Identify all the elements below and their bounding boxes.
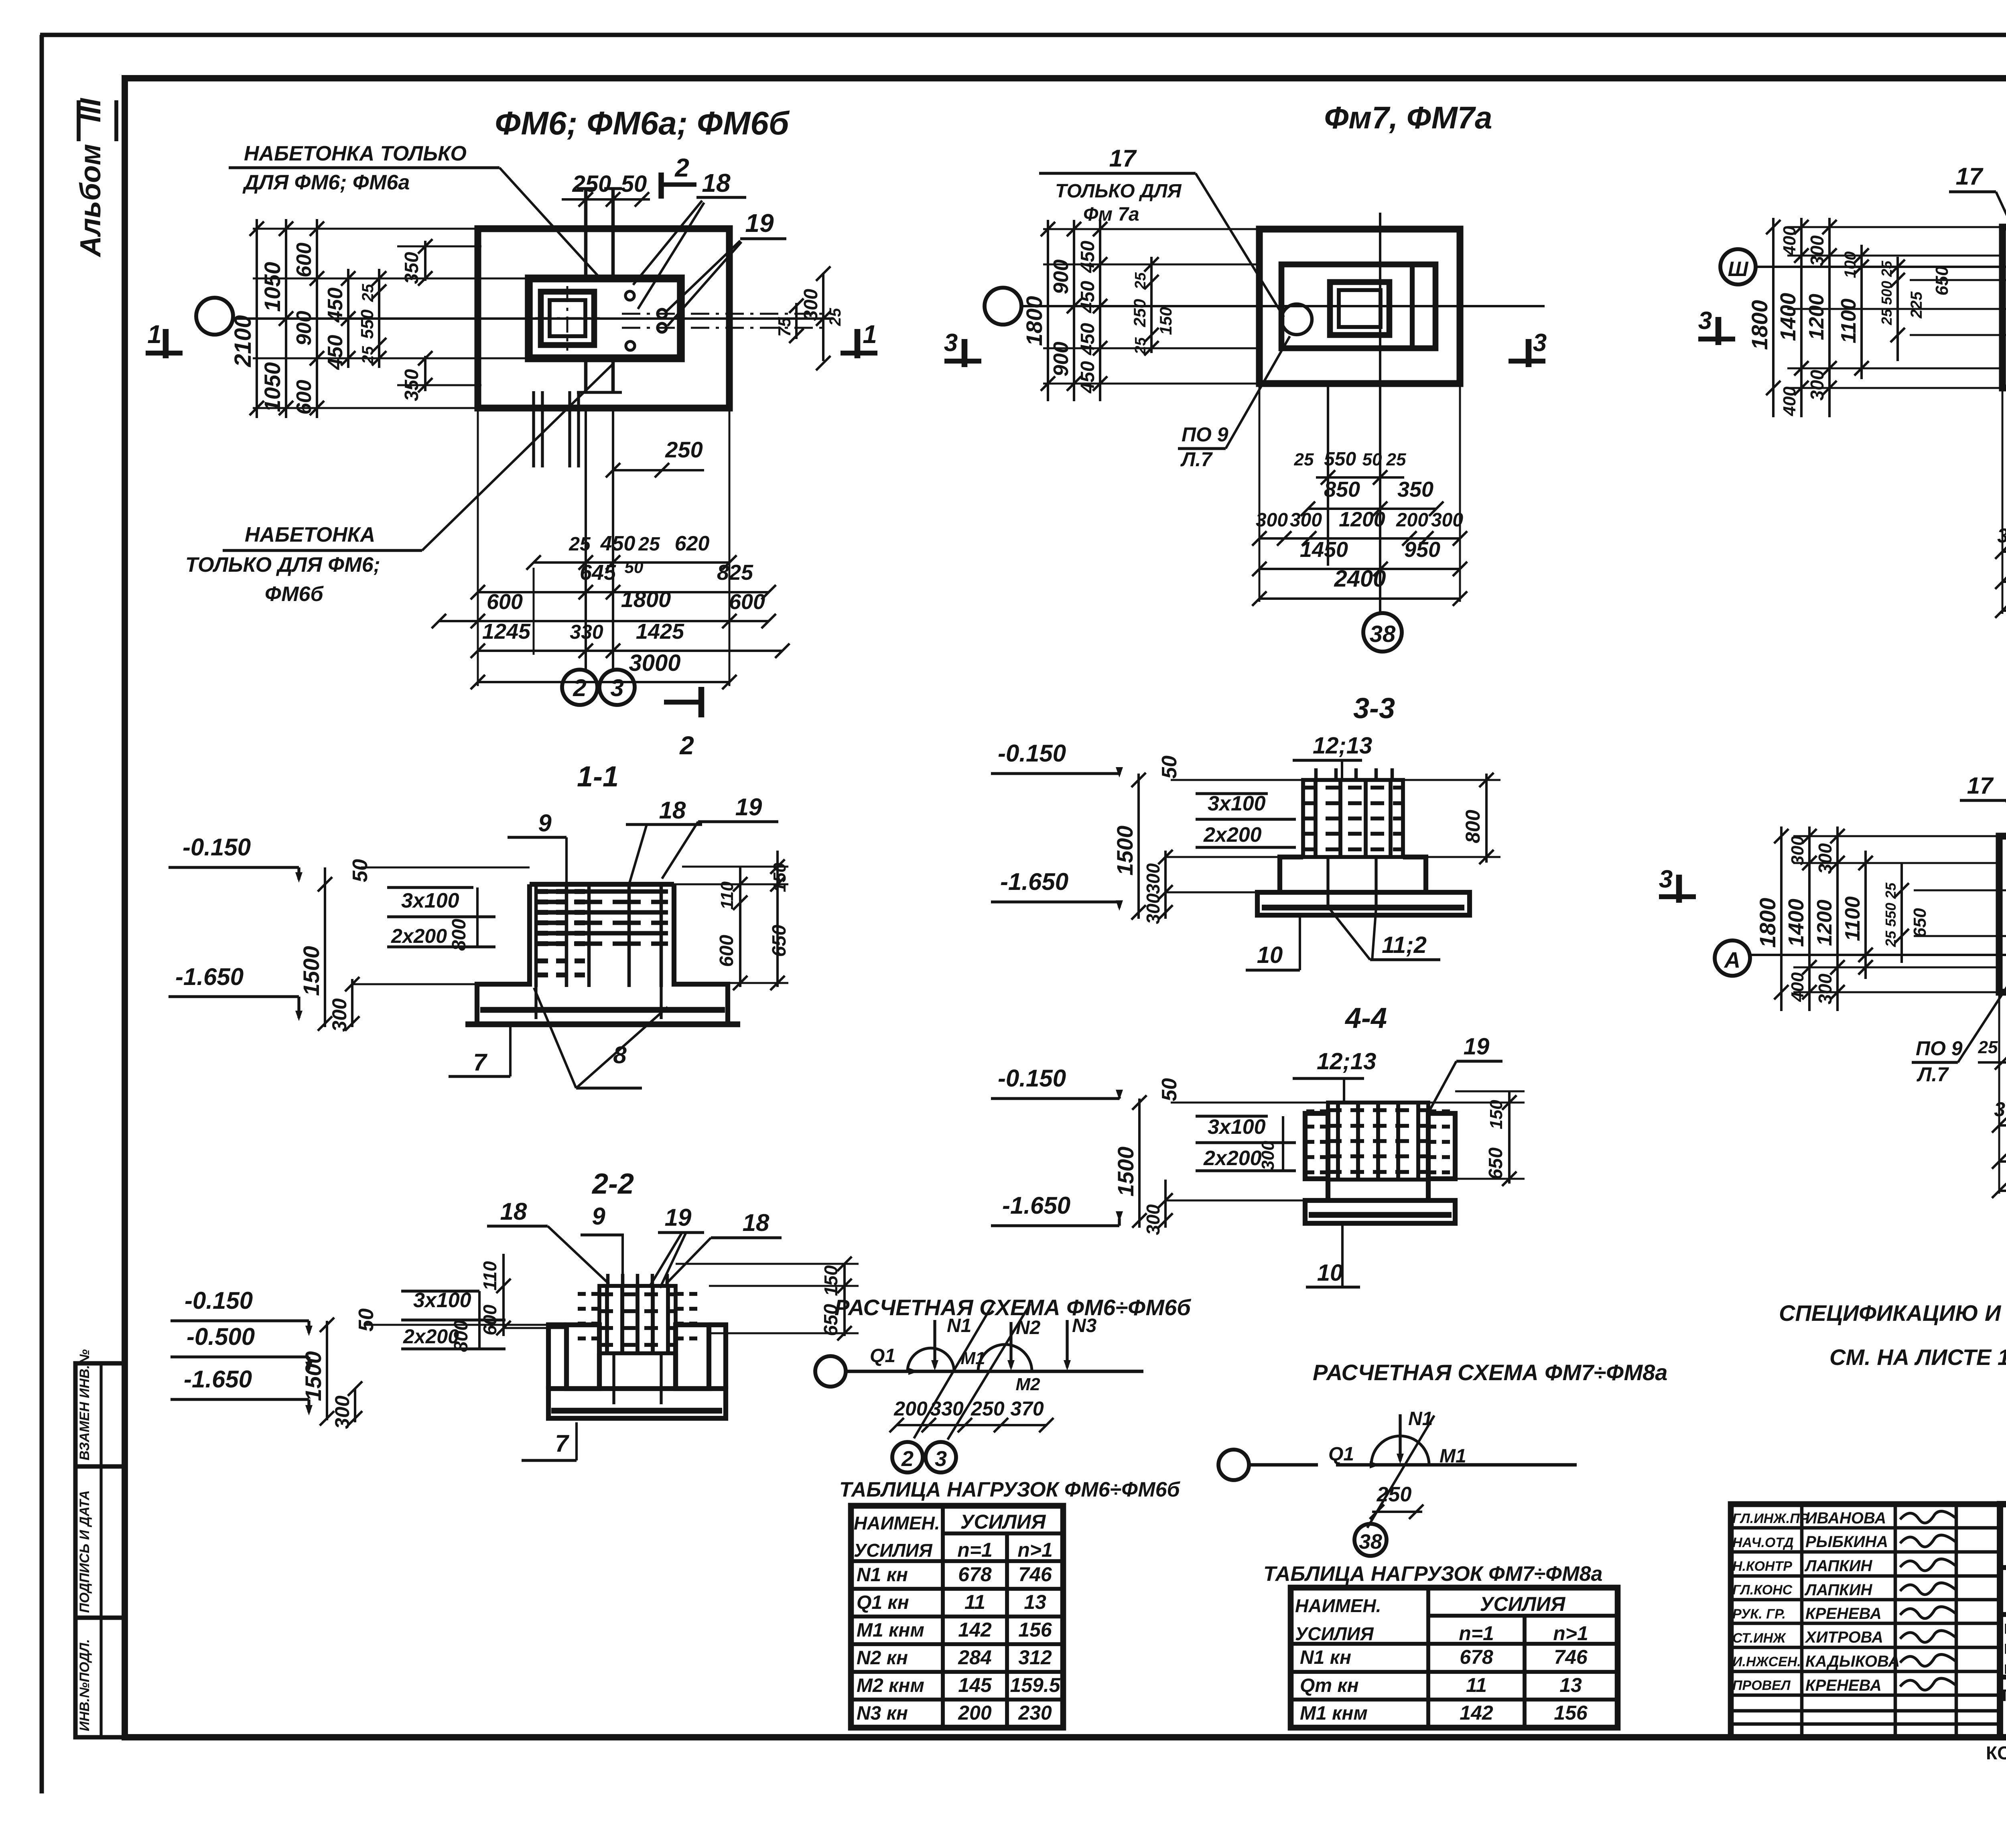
personnel table column line 2 xyxy=(1894,1504,1897,1737)
svg-text:ЛАПКИН: ЛАПКИН xyxy=(1804,1557,1873,1575)
svg-text:3х100: 3х100 xyxy=(1208,1115,1266,1139)
svg-text:ГЛ.ИНЖ.ПР: ГЛ.ИНЖ.ПР xyxy=(1732,1511,1809,1526)
svg-text:645: 645 xyxy=(580,560,616,585)
svg-text:1500: 1500 xyxy=(1112,826,1137,876)
plan FM8 axis circle Sh xyxy=(1720,249,1756,284)
svg-text:РУК. ГР.: РУК. ГР. xyxy=(1732,1606,1786,1622)
plan FM7 left dim 900/900 xyxy=(1073,220,1075,401)
plan FM8a axis line xyxy=(1750,954,2006,956)
svg-text:142: 142 xyxy=(958,1619,992,1641)
personnel row 5 line xyxy=(1731,1622,2000,1625)
svg-text:3: 3 xyxy=(1698,307,1712,335)
svg-text:18: 18 xyxy=(743,1209,770,1236)
plan FM6 anchor bolt lines above pedestal xyxy=(584,187,588,281)
svg-text:-0.150: -0.150 xyxy=(183,834,251,861)
svg-text:4-4: 4-4 xyxy=(1344,1002,1387,1034)
svg-text:300: 300 xyxy=(1143,863,1163,894)
section 2-2 footing outline xyxy=(548,1325,566,1389)
svg-text:17: 17 xyxy=(1967,773,1994,799)
section 3-3 dim 800 xyxy=(1485,774,1488,863)
svg-text:НАИМЕН.: НАИМЕН. xyxy=(854,1513,940,1533)
plan FM8a outer outline xyxy=(1999,836,2006,992)
table FM7 outline xyxy=(1291,1588,1618,1728)
svg-text:650: 650 xyxy=(1485,1147,1507,1180)
svg-text:9: 9 xyxy=(592,1203,605,1230)
svg-text:38: 38 xyxy=(1359,1530,1382,1554)
plan FM8 left dim 1800 xyxy=(1772,218,1775,417)
personnel table column line 1 xyxy=(1800,1504,1804,1737)
svg-text:1100: 1100 xyxy=(1841,896,1864,941)
plan FM6 dim 350 top xyxy=(424,241,426,281)
svg-text:КРЕНЕВА: КРЕНЕВА xyxy=(1805,1605,1882,1623)
svg-text:Ш: Ш xyxy=(1728,258,1749,281)
section 1-1 dim 300 xyxy=(351,979,353,1027)
section 3-3 cage mesh xyxy=(1303,786,1403,790)
svg-text:Qт кн: Qт кн xyxy=(1300,1675,1359,1696)
svg-text:-0.500: -0.500 xyxy=(187,1323,255,1350)
table FM6 row lines xyxy=(851,1559,1063,1563)
svg-text:330: 330 xyxy=(930,1397,964,1420)
svg-text:ПО 9: ПО 9 xyxy=(1916,1037,1963,1060)
nabetonka top leader xyxy=(499,168,603,281)
section 3-3 step block xyxy=(1280,857,1303,892)
plan FM7 leader po9 xyxy=(1226,336,1290,449)
scheme FM6 axis circle xyxy=(815,1356,846,1387)
svg-text:300: 300 xyxy=(1258,1141,1278,1170)
section 2-2 bars top hooks xyxy=(606,1274,610,1286)
personnel row 8 signature squiggle xyxy=(1900,1678,1955,1690)
section 3-3 footing outline xyxy=(1257,892,1470,915)
section 1-1 right dims 600 110 xyxy=(674,883,788,885)
plan FM7 section 3 flag left xyxy=(944,359,981,364)
svg-text:1245: 1245 xyxy=(482,619,531,644)
svg-text:Q1: Q1 xyxy=(1328,1444,1354,1465)
scheme FM6 force N2 xyxy=(1009,1322,1012,1367)
plan FM6 anchor bolt lines below pedestal xyxy=(584,356,588,391)
scheme FM7 axis circle 38 xyxy=(1354,1524,1387,1556)
svg-text:ТОЛЬКО ДЛЯ: ТОЛЬКО ДЛЯ xyxy=(1055,181,1182,202)
personnel row 6 signature squiggle xyxy=(1900,1631,1955,1642)
section 1-1 vertical bars xyxy=(534,884,538,987)
svg-text:n>1: n>1 xyxy=(1017,1539,1053,1561)
svg-text:250: 250 xyxy=(1130,299,1149,327)
svg-text:900: 900 xyxy=(1050,260,1073,294)
svg-text:312: 312 xyxy=(1018,1646,1052,1669)
svg-text:450: 450 xyxy=(1077,323,1098,355)
scheme FM7 leader slant xyxy=(1367,1415,1434,1528)
section 2-2 dim 1500 xyxy=(326,1321,328,1420)
plan FM6 bolt axis verticals down to circles xyxy=(585,408,587,670)
svg-text:678: 678 xyxy=(1460,1646,1493,1668)
svg-text:2-2: 2-2 xyxy=(591,1168,634,1200)
svg-text:350: 350 xyxy=(1397,477,1433,502)
svg-text:450: 450 xyxy=(324,288,347,323)
plan FM6 left dim line 2100 xyxy=(256,219,258,418)
left stamp box 1 (vzamen inv) xyxy=(75,1363,125,1466)
svg-text:3: 3 xyxy=(1659,865,1673,893)
svg-text:Фм 7а: Фм 7а xyxy=(1083,204,1139,225)
personnel row 8 line xyxy=(1731,1694,2000,1697)
plan FM7 anchor plate outer xyxy=(1330,282,1389,335)
plan FM6 pedestal outline xyxy=(529,278,681,358)
svg-text:Фм7, ФМ7а: Фм7, ФМ7а xyxy=(1324,100,1492,135)
plan FM7 middle outline xyxy=(1281,264,1435,348)
svg-text:2х200: 2х200 xyxy=(391,925,447,947)
section 2-2 rebar cage outline xyxy=(599,1286,676,1353)
plan FM7 left dim 1800 xyxy=(1047,220,1049,401)
svg-text:17: 17 xyxy=(1109,145,1137,172)
plan FM7 axis circle xyxy=(985,288,1021,325)
svg-text:300: 300 xyxy=(328,998,351,1032)
scheme FM6 leader slants to axis circles xyxy=(914,1302,994,1438)
svg-text:ТОЛЬКО ДЛЯ ФМ6;: ТОЛЬКО ДЛЯ ФМ6; xyxy=(185,553,380,577)
plan FM6 section 1 flag right xyxy=(841,351,877,355)
section 4-4 footing mesh line xyxy=(1309,1212,1452,1218)
table FM7 header merged line xyxy=(1428,1614,1618,1618)
plan FM8 left dim 1400/400 xyxy=(1800,218,1803,417)
svg-text:3: 3 xyxy=(1533,329,1547,357)
svg-text:1500: 1500 xyxy=(1113,1147,1138,1197)
svg-text:ИВАНОВА: ИВАНОВА xyxy=(1805,1509,1886,1527)
svg-text:ТАБЛИЦА НАГРУЗОК ФМ7÷ФМ8а: ТАБЛИЦА НАГРУЗОК ФМ7÷ФМ8а xyxy=(1263,1562,1602,1586)
svg-text:25: 25 xyxy=(1386,450,1406,469)
section 4-4 cage side dashes xyxy=(1306,1109,1328,1113)
svg-text:Л.7: Л.7 xyxy=(1180,448,1213,471)
plan FM6 leader lines from 18 to anchors xyxy=(633,201,702,285)
svg-text:150: 150 xyxy=(1486,1100,1506,1129)
personnel row 3 signature squiggle xyxy=(1900,1559,1955,1571)
svg-text:400: 400 xyxy=(1780,386,1799,416)
svg-text:600: 600 xyxy=(729,590,765,614)
svg-text:СМ. НА ЛИСТЕ 13: СМ. НА ЛИСТЕ 13 xyxy=(1829,1344,2006,1370)
svg-text:19: 19 xyxy=(745,209,774,238)
personnel row 7 line xyxy=(1731,1670,2000,1673)
svg-text:КОПИРОВАЛ: ГРАФСКАЯ: КОПИРОВАЛ: ГРАФСКАЯ xyxy=(1986,1742,2006,1763)
title block hline above project name xyxy=(1999,1612,2006,1617)
svg-text:50: 50 xyxy=(1158,755,1181,779)
plan FM6 left extension lines xyxy=(253,228,478,230)
svg-text:2х200: 2х200 xyxy=(1203,823,1262,847)
svg-text:450: 450 xyxy=(324,335,347,370)
personnel row 2 line xyxy=(1731,1550,2000,1554)
svg-text:Q1 кн: Q1 кн xyxy=(857,1592,909,1613)
svg-text:150: 150 xyxy=(1156,307,1175,335)
svg-text:Л.7: Л.7 xyxy=(1917,1063,1949,1086)
svg-text:НОСТЬЮ 6.0ТЫС.ТОНН ИЗДЕЛИЙ В Г: НОСТЬЮ 6.0ТЫС.ТОНН ИЗДЕЛИЙ В ГОД xyxy=(2004,1661,2006,1677)
svg-text:300: 300 xyxy=(1290,510,1322,531)
plan FM8 left dim 1100/100 xyxy=(1860,245,1863,379)
section 2-2 cage side dashes right xyxy=(676,1292,697,1296)
table FM6 header merged line xyxy=(943,1531,1063,1535)
svg-text:300: 300 xyxy=(1143,1204,1163,1235)
svg-text:РЫБКИНА: РЫБКИНА xyxy=(1805,1533,1888,1551)
svg-text:800: 800 xyxy=(451,1320,472,1352)
svg-text:3-3: 3-3 xyxy=(1353,692,1395,725)
plan FM8a leader po9 xyxy=(1958,916,2006,1062)
svg-text:1050: 1050 xyxy=(260,362,285,412)
svg-text:УСИЛИЯ: УСИЛИЯ xyxy=(1480,1593,1566,1615)
plan FM6 axis centerline xyxy=(233,317,834,320)
svg-text:2: 2 xyxy=(901,1447,914,1471)
plan FM8 outer outline xyxy=(2002,227,2006,388)
svg-text:225: 225 xyxy=(1908,291,1925,319)
table FM7 column line 2 xyxy=(1523,1616,1527,1728)
svg-text:ПРОВЕЛ: ПРОВЕЛ xyxy=(1732,1678,1791,1693)
svg-text:450: 450 xyxy=(1077,281,1098,313)
section 1-1 footing slab bottom xyxy=(465,1021,740,1028)
personnel extra row line 1 xyxy=(1731,1709,2000,1713)
svg-text:50: 50 xyxy=(349,859,372,882)
svg-text:1500: 1500 xyxy=(300,1351,326,1401)
section 2-2 stem outline xyxy=(597,1353,602,1389)
personnel row 6 line xyxy=(1731,1646,2000,1649)
svg-text:-0.150: -0.150 xyxy=(998,740,1066,767)
svg-text:3: 3 xyxy=(610,674,623,701)
plan FM6 left dim line 450/450 xyxy=(347,269,349,368)
svg-text:250: 250 xyxy=(1377,1483,1412,1506)
section 3-3 dim 1500 xyxy=(1137,774,1140,919)
personnel table column line 3 xyxy=(1955,1504,1958,1737)
section 2-2 dim 300 xyxy=(354,1388,356,1422)
scheme FM7 axis circle xyxy=(1218,1450,1249,1480)
title block hline between name rows xyxy=(1999,1675,2006,1679)
far right section 3 flag for FM8a xyxy=(1659,894,1696,899)
svg-text:N3 кн: N3 кн xyxy=(857,1703,908,1724)
svg-text:13: 13 xyxy=(1024,1591,1046,1613)
svg-text:N1 кн: N1 кн xyxy=(1300,1647,1351,1668)
svg-text:n>1: n>1 xyxy=(1553,1622,1588,1645)
svg-text:-0.150: -0.150 xyxy=(998,1065,1066,1092)
svg-text:КАДЫКОВА: КАДЫКОВА xyxy=(1805,1653,1900,1670)
section 2-2 right dims 150 650 xyxy=(709,1285,859,1287)
svg-text:825: 825 xyxy=(717,560,753,585)
section 1-1 column rebar horizontal bars xyxy=(536,889,668,894)
section 1-1 dim 1500 xyxy=(324,867,326,1027)
plan FM6 section 1 flag left xyxy=(146,351,183,355)
scheme FM6 force N3 xyxy=(1066,1320,1068,1367)
svg-text:ФМ6б: ФМ6б xyxy=(265,583,324,606)
plan FM8 leader 17 xyxy=(1996,192,2006,317)
sheet outer border top line xyxy=(40,33,2006,37)
table FM6 outline xyxy=(851,1506,1063,1728)
svg-text:678: 678 xyxy=(958,1563,992,1586)
plan FM7 section 3 flag right xyxy=(1509,359,1545,364)
personnel row 1 line xyxy=(1731,1526,2000,1530)
plan FM6 axis circle 3 xyxy=(599,670,635,705)
plan FM8 centerline horizontal xyxy=(1902,308,2006,310)
section 2-2 right beam block xyxy=(676,1325,709,1389)
plan FM6 left dim small 25/550/25 xyxy=(378,269,380,368)
plan FM6 left dim line 600/900/600 xyxy=(316,219,318,418)
table FM7 column line 1 xyxy=(1426,1588,1430,1728)
svg-text:600: 600 xyxy=(479,1304,500,1335)
svg-text:110: 110 xyxy=(479,1261,500,1291)
svg-text:N1: N1 xyxy=(947,1315,971,1336)
svg-text:230: 230 xyxy=(1018,1702,1052,1724)
svg-text:142: 142 xyxy=(1460,1702,1493,1724)
section 4-4 dim 300 xyxy=(1164,1180,1167,1228)
svg-text:50: 50 xyxy=(1158,1078,1181,1101)
svg-text:1: 1 xyxy=(147,320,162,349)
plan FM8 left extension lines xyxy=(1787,226,2002,228)
svg-text:2400: 2400 xyxy=(1334,566,1386,592)
svg-text:М2: М2 xyxy=(1015,1375,1040,1394)
svg-text:2: 2 xyxy=(679,731,694,760)
svg-text:1800: 1800 xyxy=(1755,898,1780,948)
section 3-3 cage outline xyxy=(1303,780,1403,857)
svg-text:350: 350 xyxy=(401,252,422,284)
svg-text:3х100: 3х100 xyxy=(401,889,459,912)
svg-text:100: 100 xyxy=(1842,252,1859,278)
section 1-1 vertical bar bottom hooks xyxy=(534,987,537,1019)
plan FM8a extension verticals xyxy=(1998,992,2000,1194)
section 2-2 cage mesh xyxy=(599,1292,676,1296)
scheme FM6 axis circle 3 xyxy=(926,1442,956,1472)
section 4-4 left beam block xyxy=(1305,1113,1328,1179)
svg-text:А: А xyxy=(1724,947,1740,973)
svg-text:НАБЕТОНКА ТОЛЬКО: НАБЕТОНКА ТОЛЬКО xyxy=(244,142,467,165)
svg-text:7: 7 xyxy=(473,1049,487,1076)
svg-text:145: 145 xyxy=(958,1674,992,1696)
svg-text:3000: 3000 xyxy=(629,650,680,676)
svg-text:1450: 1450 xyxy=(1300,538,1348,562)
title block personnel table outline xyxy=(1731,1504,2000,1737)
plan FM8a left dim 300/1200/300 xyxy=(1836,827,1839,1011)
scheme FM7 moment arc xyxy=(1371,1436,1429,1465)
plan FM6 right small dims xyxy=(795,303,798,339)
svg-text:НАЧ.ОТД: НАЧ.ОТД xyxy=(1732,1535,1794,1550)
plan FM7 bolt verticals xyxy=(1327,384,1329,566)
svg-text:25: 25 xyxy=(359,284,377,302)
svg-text:25: 25 xyxy=(1132,337,1149,355)
svg-text:370: 370 xyxy=(1010,1397,1044,1420)
plan FM6 axis circle xyxy=(196,298,233,335)
svg-text:300: 300 xyxy=(800,289,822,321)
scheme FM6 moment arc 1 xyxy=(908,1348,954,1371)
svg-text:50: 50 xyxy=(625,558,644,577)
svg-text:25: 25 xyxy=(359,346,377,364)
svg-text:1800: 1800 xyxy=(1021,296,1047,346)
svg-text:УСИЛИЯ: УСИЛИЯ xyxy=(854,1540,933,1561)
nabetonka bottom leader xyxy=(422,363,614,550)
svg-text:М1 кнм: М1 кнм xyxy=(1300,1703,1368,1724)
svg-text:N1 кн: N1 кн xyxy=(857,1564,908,1586)
plan FM6 section 2 flag top xyxy=(658,173,664,199)
svg-text:850: 850 xyxy=(1324,477,1360,502)
svg-text:НОЙ ОСНАСТКИ И ИНВЕНТАРЯ МОЩ-: НОЙ ОСНАСТКИ И ИНВЕНТАРЯ МОЩ- xyxy=(2004,1640,2006,1657)
scheme FM6 force N1 xyxy=(933,1320,936,1367)
personnel row 2 signature squiggle xyxy=(1900,1535,1955,1547)
svg-text:300: 300 xyxy=(1788,836,1807,865)
svg-text:2: 2 xyxy=(674,153,689,182)
section 1-1 rebar end hooks left xyxy=(538,889,590,894)
section 4-4 footing outline xyxy=(1305,1200,1455,1223)
svg-text:12;13: 12;13 xyxy=(1317,1048,1376,1074)
plan FM6 anchor plate inner xyxy=(550,300,585,336)
section 4-4 right beam block xyxy=(1428,1113,1455,1179)
plan FM8 left dim 300/1200/300 xyxy=(1828,218,1831,417)
svg-text:900: 900 xyxy=(292,311,316,346)
section 2-2 vertical bars into footing xyxy=(612,1353,615,1404)
svg-text:156: 156 xyxy=(1554,1702,1588,1724)
plan FM6 dim 350 bottom xyxy=(424,356,426,391)
svg-text:650: 650 xyxy=(769,925,790,957)
svg-text:900: 900 xyxy=(1050,342,1073,377)
svg-text:156: 156 xyxy=(1018,1619,1052,1641)
plan FM6 anchor bolts small circles xyxy=(625,291,634,300)
personnel extra row line 2 xyxy=(1731,1722,2000,1726)
svg-text:400: 400 xyxy=(1788,972,1807,1002)
svg-text:3: 3 xyxy=(935,1447,947,1471)
plan FM7 anchor plate inner xyxy=(1339,290,1381,327)
svg-text:1200: 1200 xyxy=(1805,294,1828,340)
svg-text:400: 400 xyxy=(1780,226,1799,256)
svg-text:25 500 25: 25 500 25 xyxy=(1878,260,1895,325)
svg-text:1800: 1800 xyxy=(621,587,671,612)
svg-text:600: 600 xyxy=(292,243,316,278)
svg-text:-1.650: -1.650 xyxy=(1000,868,1068,895)
svg-text:7: 7 xyxy=(555,1430,569,1457)
svg-text:ВЗАМЕН ИНВ.№: ВЗАМЕН ИНВ.№ xyxy=(77,1349,92,1460)
svg-text:600: 600 xyxy=(487,590,523,614)
section 4-4 stem outline xyxy=(1326,1180,1330,1200)
section 4-4 dim 1500 xyxy=(1138,1099,1141,1228)
plan FM8a small dims 25 550 25 650 xyxy=(1900,863,1903,963)
svg-text:19: 19 xyxy=(1464,1034,1490,1060)
svg-text:ХИТРОВА: ХИТРОВА xyxy=(1805,1629,1883,1646)
svg-text:300: 300 xyxy=(1807,370,1827,400)
svg-text:550: 550 xyxy=(357,309,377,339)
svg-text:М1: М1 xyxy=(1440,1446,1466,1467)
plan FM7 small dims 25/250/150 xyxy=(1150,257,1153,353)
svg-text:9: 9 xyxy=(538,810,552,837)
svg-text:1050: 1050 xyxy=(260,262,285,312)
svg-text:ГЛ.КОНС: ГЛ.КОНС xyxy=(1732,1582,1793,1598)
svg-text:18: 18 xyxy=(659,797,686,824)
svg-text:250: 250 xyxy=(971,1397,1005,1420)
svg-text:ПО 9: ПО 9 xyxy=(1182,423,1228,446)
table FM7 row lines xyxy=(1291,1642,1618,1646)
svg-text:-1.650: -1.650 xyxy=(1002,1192,1070,1219)
svg-text:1500: 1500 xyxy=(298,946,324,996)
svg-text:200: 200 xyxy=(893,1397,928,1420)
section 1-1 right dims 650 150 xyxy=(776,851,779,987)
svg-text:200: 200 xyxy=(958,1702,992,1724)
svg-text:11: 11 xyxy=(1466,1674,1487,1696)
personnel row 5 signature squiggle xyxy=(1900,1607,1955,1619)
scheme FM7 beam line xyxy=(1249,1463,1318,1467)
plan FM8 section 3 flag left xyxy=(1698,337,1735,341)
svg-text:300: 300 xyxy=(1815,973,1835,1004)
svg-text:11;2: 11;2 xyxy=(1382,932,1427,958)
left stamp box 3 divider xyxy=(99,1618,102,1737)
plan FM7 axis circle 38 xyxy=(1363,613,1402,652)
plan FM6 outer outline xyxy=(478,229,729,408)
svg-text:1425: 1425 xyxy=(636,619,684,644)
svg-text:18: 18 xyxy=(500,1198,527,1225)
svg-text:300: 300 xyxy=(1143,893,1163,924)
personnel row 3 line xyxy=(1731,1574,2000,1578)
svg-text:800: 800 xyxy=(1462,810,1484,843)
plan FM8a left extension lines xyxy=(1793,835,1999,837)
left stamp box 1 divider xyxy=(99,1363,102,1466)
svg-text:ДЛЯ ФМ6; ФМ6а: ДЛЯ ФМ6; ФМ6а xyxy=(242,171,410,194)
left stamp box 3 (inv n podl) xyxy=(75,1618,125,1737)
svg-text:РАСЧЕТНАЯ СХЕМА ФМ7÷ФМ8а: РАСЧЕТНАЯ СХЕМА ФМ7÷ФМ8а xyxy=(1313,1360,1667,1385)
personnel row 1 signature squiggle xyxy=(1900,1511,1955,1523)
svg-text:10: 10 xyxy=(1257,942,1283,968)
svg-text:НАБЕТОНКА: НАБЕТОНКА xyxy=(245,523,375,546)
